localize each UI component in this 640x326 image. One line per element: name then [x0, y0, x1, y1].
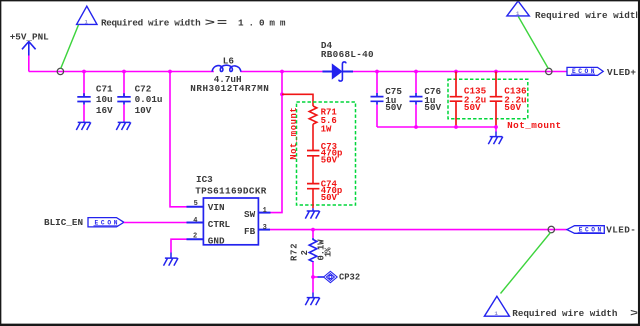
ground IC3	[164, 253, 179, 266]
svg-text:50V: 50V	[424, 102, 441, 113]
note text top-left	[101, 17, 290, 29]
svg-text:2: 2	[193, 232, 197, 240]
svg-text:50V: 50V	[464, 102, 481, 113]
junction dot C71	[82, 70, 86, 74]
junction dot tie C136	[494, 125, 498, 129]
svg-text:SW: SW	[244, 209, 256, 220]
not-mount dashed box C135/C136	[448, 79, 528, 118]
junction dot C135	[454, 70, 458, 74]
svg-text:50V: 50V	[321, 155, 338, 165]
wire ground stub	[495, 127, 497, 132]
svg-text:CP32: CP32	[339, 273, 360, 283]
ground under tie wire	[488, 132, 503, 145]
svg-text:2: 2	[300, 250, 310, 255]
pin 1 SW	[258, 212, 270, 214]
svg-text:VLED+: VLED+	[607, 67, 636, 78]
svg-text:Not_mount: Not_mount	[289, 107, 299, 160]
wire C74 down	[312, 189, 314, 209]
note text bottom-right	[512, 308, 639, 320]
svg-text:Not_mount: Not_mount	[507, 120, 561, 131]
svg-text:CTRL: CTRL	[208, 219, 231, 230]
node circle top-left	[57, 68, 63, 74]
svg-text:5: 5	[194, 200, 198, 208]
junction dot red branch	[280, 92, 284, 96]
wire green bottom-right	[501, 233, 551, 294]
wire C73 to C74	[312, 156, 314, 183]
junction dot C76	[414, 70, 418, 74]
svg-text:3: 3	[263, 224, 267, 232]
svg-text:=: =	[217, 18, 228, 29]
capacitor C75	[371, 72, 403, 128]
capacitor C71	[77, 72, 113, 122]
node circle VLED-	[548, 226, 554, 232]
svg-text:TPS61169DCKR: TPS61169DCKR	[195, 185, 267, 196]
svg-text:FB: FB	[244, 226, 256, 237]
wire GND net	[171, 239, 187, 252]
ground under C74 chain	[305, 208, 320, 218]
junction dot C75	[375, 70, 379, 74]
ECON tag VLED+	[567, 67, 603, 75]
svg-text:IC3: IC3	[196, 174, 213, 185]
capacitor C76	[410, 72, 442, 128]
wire bottom tie C75-C136	[377, 126, 496, 128]
svg-text:0.01u: 0.01u	[135, 94, 163, 105]
diode D4	[321, 40, 374, 81]
capacitor C73	[307, 142, 342, 166]
junction dot R72/CP32	[311, 275, 315, 279]
note triangle top-right	[507, 1, 529, 17]
wire FB / VLED- net	[270, 229, 567, 231]
svg-text:50V: 50V	[385, 102, 402, 113]
note triangle bottom-right	[484, 296, 509, 317]
svg-text:Required wire width: Required wire width	[101, 17, 201, 28]
svg-text:VIN: VIN	[208, 202, 225, 213]
wire CTRL	[124, 222, 187, 224]
capacitor C74	[307, 180, 342, 203]
svg-text:VLED-: VLED-	[606, 225, 636, 236]
capacitor C136	[490, 72, 527, 128]
power +5V_PNL	[10, 32, 49, 56]
svg-text:GND: GND	[208, 236, 225, 247]
svg-text:RB068L-40: RB068L-40	[321, 49, 374, 60]
svg-text:BLIC_EN: BLIC_EN	[44, 217, 83, 228]
wire green top-left	[61, 25, 79, 69]
ground under C71	[76, 121, 91, 130]
pin 3 FB	[258, 229, 270, 231]
svg-text:Required wire width: Required wire width	[535, 10, 640, 21]
wire R71 to C73	[312, 124, 314, 150]
capacitor C72	[117, 72, 162, 122]
ground under C72	[116, 121, 131, 130]
ECON tag BLIC_EN	[88, 218, 124, 227]
svg-text:R72: R72	[289, 243, 299, 261]
svg-text:10u: 10u	[96, 94, 113, 105]
wire +5V drop	[28, 56, 30, 72]
pin 2 GND	[187, 238, 204, 240]
wire VIN riser	[170, 72, 187, 207]
not-mount dashed box R71/C73/C74	[297, 102, 356, 205]
svg-text:1.0mm: 1.0mm	[238, 17, 290, 28]
wire R72 to ground	[312, 277, 314, 293]
ECON tag VLED-	[567, 226, 604, 234]
junction dot SW riser	[280, 70, 284, 74]
pin 4 CTRL	[187, 222, 204, 224]
resistor R71	[309, 106, 337, 135]
resistor R72	[289, 230, 333, 277]
svg-text:1: 1	[263, 207, 267, 215]
wire SW riser	[271, 72, 283, 213]
wire red branch to R71	[282, 94, 313, 106]
svg-text:+5V_PNL: +5V_PNL	[10, 32, 49, 43]
svg-text:4: 4	[193, 217, 197, 225]
svg-text:1%: 1%	[323, 247, 333, 257]
svg-text:1W: 1W	[321, 125, 332, 135]
ground under R72	[305, 293, 320, 306]
op-amp IC3 TPS61169DCKR	[195, 174, 267, 247]
junction dot C136	[494, 70, 498, 74]
junction dot FB/R72	[311, 228, 315, 232]
junction dot C72	[122, 70, 126, 74]
svg-text:L6: L6	[223, 55, 235, 66]
wire main +5V bus	[29, 71, 567, 73]
pin 5 VIN	[187, 206, 204, 208]
inductor L6	[190, 55, 268, 94]
junction dot tie C76	[414, 125, 418, 129]
svg-text:>: >	[205, 18, 216, 29]
test point CP32	[313, 271, 360, 282]
note triangle top-left	[77, 6, 97, 25]
svg-text:16V: 16V	[96, 105, 113, 116]
svg-text:10V: 10V	[135, 105, 152, 116]
svg-text:NRH3012T4R7MN: NRH3012T4R7MN	[190, 83, 268, 94]
junction dot VIN riser	[168, 70, 172, 74]
capacitor C135	[450, 72, 487, 128]
wire green top-right	[518, 17, 548, 69]
junction dot tie C135	[454, 125, 458, 129]
svg-text:50V: 50V	[504, 102, 521, 113]
svg-text:C72: C72	[135, 83, 152, 94]
svg-text:50V: 50V	[321, 193, 338, 203]
node circle VLED+	[546, 68, 552, 74]
svg-text:Required wire width: Required wire width	[512, 308, 618, 319]
svg-text:C71: C71	[96, 83, 113, 94]
